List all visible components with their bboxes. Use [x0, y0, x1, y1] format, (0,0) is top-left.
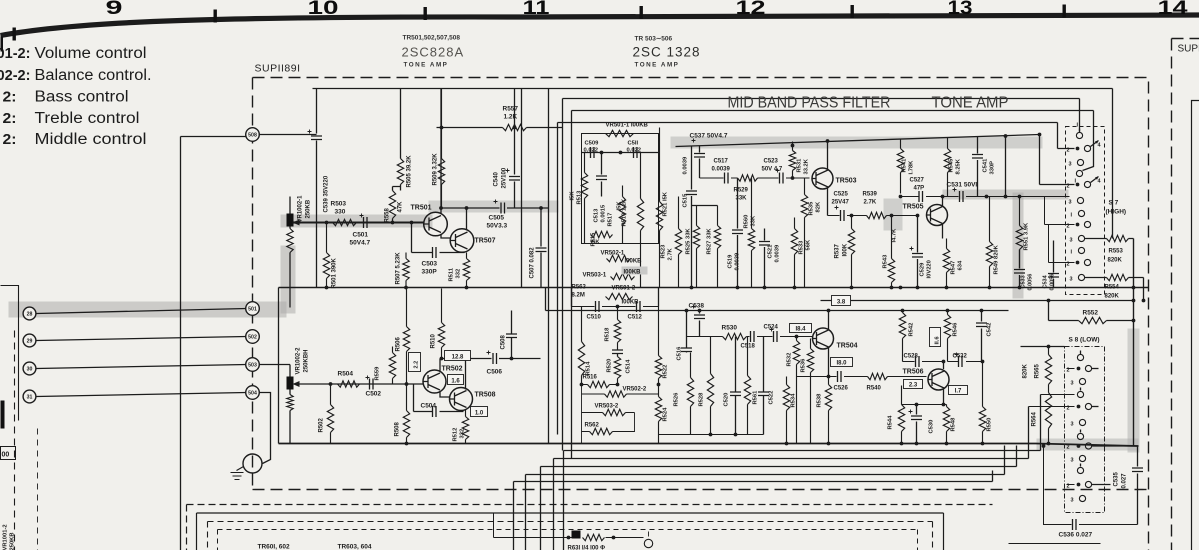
- wire TR505 collector: [942, 197, 944, 207]
- node 503: [246, 358, 260, 372]
- svg-text:C514: C514: [626, 359, 632, 374]
- svg-text:R504: R504: [338, 371, 354, 378]
- resistor R525: [693, 206, 699, 288]
- svg-text:SUPI: SUPI: [1178, 44, 1199, 55]
- junction C529 top: [916, 214, 920, 218]
- svg-text:0.022: 0.022: [584, 148, 599, 154]
- svg-text:R530: R530: [722, 325, 738, 332]
- svg-text:R501 390K: R501 390K: [332, 257, 338, 288]
- wire C506 row: [442, 358, 541, 360]
- ruler bar: [1, 15, 1199, 36]
- svg-text:3: 3: [1071, 498, 1074, 504]
- svg-text:3: 3: [1070, 238, 1073, 244]
- svg-text:R528: R528: [699, 392, 705, 407]
- svg-text:2:: 2:: [3, 131, 17, 148]
- svg-text:I0V220: I0V220: [927, 260, 933, 278]
- svg-text:VR501-2: VR501-2: [612, 286, 636, 292]
- pot VR501-1: [606, 130, 634, 136]
- transistor TR502: [423, 370, 446, 393]
- wire TR506 base row: [797, 376, 927, 378]
- svg-text:2:: 2:: [3, 110, 17, 127]
- junction R509 top: [440, 126, 444, 130]
- svg-text:330P: 330P: [422, 269, 438, 276]
- svg-text:C542: C542: [987, 323, 993, 337]
- connector mark R631: [572, 531, 581, 539]
- wire C505 row: [441, 207, 549, 209]
- wire node29 to node502: [37, 337, 247, 341]
- node 31: [23, 390, 36, 403]
- pot VR1002-2: [287, 377, 294, 390]
- boxed value 1.7: [949, 386, 968, 395]
- svg-text:TR501: TR501: [411, 205, 432, 212]
- svg-text:TR505: TR505: [903, 204, 924, 211]
- svg-text:TR502: TR502: [442, 366, 463, 373]
- capacitor C517: [725, 173, 729, 184]
- svg-text:R510: R510: [431, 333, 437, 348]
- transistor TR508: [450, 388, 473, 411]
- dashed box right section left edge: [1171, 39, 1173, 550]
- svg-text:C503: C503: [422, 261, 438, 268]
- wire S8 feed column: [1133, 239, 1135, 447]
- svg-text:332: 332: [460, 429, 466, 439]
- capacitor C534: [1053, 241, 1055, 288]
- resistor R557: [437, 124, 563, 130]
- svg-text:12.8: 12.8: [452, 355, 464, 361]
- svg-text:33K: 33K: [751, 215, 757, 226]
- junction C540 top: [513, 126, 517, 130]
- resistor R501: [323, 223, 329, 288]
- junction R508 top: [405, 382, 409, 386]
- rail C537: [676, 135, 1040, 147]
- svg-text:8.25K: 8.25K: [956, 158, 962, 174]
- resistor R530: [723, 333, 747, 339]
- resistor R562: [590, 428, 613, 434]
- svg-text:TR 503∼506: TR 503∼506: [635, 36, 673, 43]
- wiper arrow VR1002-2: [293, 381, 300, 387]
- svg-text:C510: C510: [587, 315, 602, 321]
- svg-text:I00KB: I00KB: [624, 270, 642, 276]
- svg-text:0.0039: 0.0039: [735, 252, 741, 271]
- resistor R505: [397, 159, 403, 185]
- svg-text:R559: R559: [375, 366, 381, 381]
- svg-text:C524: C524: [764, 325, 779, 331]
- svg-text:503: 503: [248, 363, 257, 369]
- svg-text:R534: R534: [791, 393, 797, 408]
- svg-text:C522: C522: [769, 391, 775, 405]
- node 29: [23, 334, 36, 347]
- svg-text:TR60I, 602: TR60I, 602: [258, 544, 291, 550]
- resistor R526: [687, 353, 693, 435]
- svg-text:R517: R517: [608, 213, 614, 227]
- transistor TR507: [450, 229, 474, 253]
- svg-text:VR1002-2: VR1002-2: [296, 347, 302, 375]
- dashed box bottom inner1: [208, 522, 933, 550]
- svg-text:Balance control.: Balance control.: [35, 67, 152, 84]
- svg-text:C538: C538: [689, 303, 705, 310]
- svg-text:R526: R526: [674, 392, 680, 407]
- S7 row1 throw: [1091, 141, 1099, 147]
- resistor R539: [867, 212, 887, 218]
- capacitor C533: [1019, 250, 1021, 288]
- wire TR504 collector: [828, 311, 830, 331]
- capacitor C508: [511, 311, 513, 359]
- svg-text:TR506: TR506: [903, 369, 924, 376]
- node 502: [246, 330, 260, 344]
- svg-text:3: 3: [1071, 422, 1074, 428]
- svg-text:C526: C526: [834, 386, 849, 392]
- capacitor C540: [514, 89, 516, 209]
- S7 wire row1: [1058, 148, 1075, 150]
- wire R527 top: [692, 205, 718, 207]
- svg-text:504: 504: [248, 391, 257, 397]
- resistor R559: [389, 347, 395, 385]
- highlight mark on R551 column: [1013, 193, 1024, 299]
- svg-text:R552: R552: [1083, 310, 1099, 317]
- svg-text:R503: R503: [331, 201, 347, 208]
- svg-text:C501: C501: [353, 232, 369, 239]
- svg-text:R512: R512: [453, 428, 459, 442]
- shield box line C: [572, 111, 1094, 459]
- wire TR502 emitter to TR508: [440, 392, 450, 397]
- junction lower bus dots: [827, 442, 831, 446]
- svg-text:00: 00: [2, 452, 10, 459]
- S8 contact 1d: [1077, 467, 1083, 473]
- wire TR505 base row: [828, 215, 917, 217]
- svg-text:Treble control: Treble control: [35, 110, 140, 127]
- node 501: [246, 302, 260, 316]
- wire R544 row: [902, 404, 947, 406]
- svg-text:R549 820K: R549 820K: [994, 244, 1000, 274]
- svg-text:0.0039: 0.0039: [712, 167, 731, 173]
- svg-text:I00K: I00K: [843, 243, 849, 256]
- S7 wire row2: [1040, 184, 1075, 186]
- svg-text:C504: C504: [421, 403, 437, 410]
- svg-text:C536 0.027: C536 0.027: [1059, 532, 1093, 539]
- ruler tick at x=213: [214, 10, 217, 23]
- svg-text:R514: R514: [586, 361, 592, 376]
- svg-text:R550: R550: [987, 418, 993, 432]
- svg-text:9: 9: [106, 0, 123, 19]
- resistor R515: [591, 231, 613, 237]
- highlight mark on S8 feed column: [1128, 329, 1140, 453]
- wire TR502 base bus: [300, 383, 424, 385]
- pot VR502-2: [605, 391, 627, 397]
- shield box line A: [313, 89, 1113, 444]
- svg-text:R63I I/4 I00 Φ: R63I I/4 I00 Φ: [568, 546, 606, 550]
- svg-text:C5II: C5II: [628, 141, 639, 147]
- boxed value 12.8: [445, 351, 471, 361]
- capacitor C542: [981, 311, 983, 362]
- ruler tick at x=12: [13, 28, 16, 41]
- junction R543 top: [890, 214, 894, 218]
- boxed value 1.6: [448, 375, 464, 385]
- svg-text:MID BAND PASS FILTER: MID BAND PASS FILTER: [728, 95, 891, 112]
- svg-text:R531: R531: [797, 158, 803, 173]
- svg-text:TONE AMP: TONE AMP: [635, 62, 680, 69]
- resistor R521: [656, 128, 662, 288]
- svg-text:29: 29: [27, 339, 33, 345]
- svg-text:R522: R522: [663, 365, 669, 379]
- svg-text:31: 31: [27, 395, 33, 401]
- boxed value 18.0: [831, 358, 853, 367]
- ruler tick at x=1062: [1063, 5, 1066, 18]
- svg-text:Middle control: Middle control: [35, 131, 147, 148]
- highlight mark on VR1002-1: [281, 246, 296, 314]
- resistor R512: [462, 410, 468, 444]
- svg-text:VR1002-1: VR1002-1: [298, 195, 304, 223]
- black page-edge mark top: [1, 37, 4, 52]
- svg-text:R508: R508: [395, 421, 401, 436]
- inner box left edge: [278, 288, 280, 444]
- svg-text:R507 5.23K: R507 5.23K: [396, 252, 402, 285]
- svg-text:3: 3: [1069, 200, 1072, 206]
- svg-text:30: 30: [27, 367, 33, 373]
- resistor R511: [463, 253, 469, 288]
- svg-text:C532: C532: [953, 354, 968, 360]
- svg-text:330: 330: [335, 209, 346, 216]
- resistor R541: [897, 139, 903, 194]
- svg-text:R551 3.9K: R551 3.9K: [1024, 222, 1030, 251]
- svg-text:R529: R529: [734, 188, 749, 194]
- svg-text:R560: R560: [744, 215, 750, 229]
- svg-text:II.6: II.6: [935, 336, 941, 345]
- svg-text:0.0056: 0.0056: [1050, 274, 1056, 291]
- svg-text:VR501-1 I00KB: VR501-1 I00KB: [606, 123, 649, 129]
- svg-text:8.2M: 8.2M: [572, 293, 585, 299]
- resistor R524: [655, 385, 661, 444]
- resistor R504: [338, 381, 360, 387]
- capacitor C537: [699, 146, 701, 179]
- svg-text:I8.4: I8.4: [795, 327, 806, 333]
- resistor R519: [637, 153, 643, 288]
- svg-text:3: 3: [1070, 277, 1073, 283]
- svg-text:2: 2: [1067, 445, 1070, 451]
- svg-text:R527 33K: R527 33K: [707, 228, 713, 255]
- capacitor C505: [501, 203, 505, 214]
- resistor R542: [899, 311, 905, 362]
- ruler tick at x=423: [424, 7, 427, 20]
- resistor R532: [793, 337, 799, 444]
- resistor R522: [655, 307, 661, 385]
- shield box line D: [558, 123, 1058, 435]
- junction C503: [410, 221, 414, 225]
- svg-text:2:: 2:: [3, 89, 17, 106]
- svg-text:R561: R561: [753, 390, 759, 405]
- svg-text:R543: R543: [883, 254, 889, 269]
- svg-text:VR503-1: VR503-1: [583, 273, 607, 279]
- svg-text:R519 1.2K: R519 1.2K: [622, 198, 628, 227]
- svg-text:R511: R511: [449, 267, 455, 281]
- capacitor C515: [691, 147, 693, 288]
- svg-text:R541: R541: [902, 158, 908, 173]
- capacitor C503: [433, 247, 437, 258]
- svg-text:2.7K: 2.7K: [668, 247, 674, 260]
- svg-text:C525: C525: [834, 192, 849, 198]
- highlight mark on C537 rail: [671, 137, 1043, 149]
- wire TR503 collector: [827, 141, 829, 171]
- wire TR506 collector row: [903, 361, 944, 363]
- dashed box SUP11891 right: [1148, 82, 1150, 550]
- svg-text:S 7: S 7: [1109, 200, 1119, 207]
- capacitor C539: [259, 89, 317, 288]
- svg-text:R524: R524: [663, 407, 669, 422]
- pot VR501-2: [606, 293, 633, 299]
- highlight mark on TR501 base wire: [281, 215, 433, 228]
- svg-text:C528: C528: [904, 354, 919, 360]
- resistor R558: [389, 191, 395, 219]
- wire into node508: [181, 136, 246, 138]
- svg-text:C507 0.082: C507 0.082: [530, 247, 536, 279]
- wire TR501 base bus: [300, 222, 425, 224]
- right section inner box: [1192, 101, 1199, 550]
- wire TR503 emitter: [827, 187, 829, 216]
- wire S8 interconnect: [1029, 395, 1075, 407]
- svg-text:2.7K: 2.7K: [864, 200, 877, 206]
- svg-text:C520: C520: [724, 393, 730, 407]
- resistor R548: [943, 405, 949, 444]
- junction C507 top: [539, 206, 543, 210]
- svg-text:VR502-1: VR502-1: [601, 251, 625, 257]
- resistor R507: [403, 253, 409, 288]
- terminal box 100: [1, 447, 16, 460]
- wire C531 row: [901, 196, 1070, 198]
- svg-text:R553: R553: [1109, 249, 1124, 255]
- svg-text:R506: R506: [396, 336, 402, 351]
- svg-text:C521: C521: [768, 244, 774, 259]
- wire R554 column: [1143, 278, 1145, 301]
- svg-text:250KB: 250KB: [306, 199, 312, 218]
- svg-text:R518: R518: [605, 327, 611, 342]
- svg-text:R538: R538: [817, 393, 823, 408]
- svg-text:C535: C535: [1114, 471, 1120, 486]
- svg-text:R564: R564: [1032, 411, 1038, 426]
- capacitor C526: [838, 371, 842, 382]
- svg-text:0.0015: 0.0015: [601, 204, 607, 223]
- capacitor C529: [917, 216, 919, 288]
- node 504: [246, 386, 260, 400]
- svg-text:13: 13: [948, 0, 973, 19]
- capacitor C516: [681, 348, 692, 352]
- capacitor C504: [433, 406, 437, 417]
- boxed value 18.4: [790, 324, 812, 333]
- svg-text:TR503: TR503: [836, 178, 857, 185]
- transistor TR505: [927, 205, 948, 226]
- junction R558: [391, 221, 395, 225]
- S8 contact 1b: [1077, 391, 1083, 397]
- svg-text:I00KB: I00KB: [625, 259, 643, 265]
- svg-text:R536: R536: [801, 358, 807, 373]
- junction R541 bottom: [899, 195, 903, 199]
- svg-text:2SC 1328: 2SC 1328: [633, 45, 701, 60]
- svg-text:C502: C502: [366, 391, 382, 398]
- dashed box SUP11891 top: [253, 77, 1149, 79]
- resistor R560: [748, 178, 754, 288]
- resistor R561: [744, 337, 750, 435]
- node 508: [246, 128, 260, 142]
- wire node28 to node501: [37, 309, 247, 314]
- boxed value 2.3: [904, 380, 923, 389]
- wire TR505 emitter: [942, 224, 944, 239]
- capacitor C536: [1044, 446, 1138, 525]
- svg-text:C540: C540: [494, 171, 500, 186]
- resistor R549: [986, 197, 992, 288]
- capacitor C524: [774, 331, 778, 342]
- resistor R564: [1045, 391, 1051, 444]
- resistor R506: [403, 289, 409, 385]
- junction C531 row: [985, 195, 989, 199]
- svg-text:634: 634: [958, 260, 964, 270]
- S8 contact 1c: [1077, 433, 1083, 439]
- svg-text:C508: C508: [501, 334, 507, 349]
- resistor R533: [791, 218, 797, 288]
- svg-text:02-2:: 02-2:: [0, 67, 31, 84]
- capacitor C507: [540, 208, 542, 288]
- svg-text:C513: C513: [594, 208, 600, 223]
- svg-text:250KB: 250KB: [10, 532, 16, 550]
- svg-text:R558: R558: [385, 207, 391, 222]
- dashed box bottom inner2: [218, 530, 918, 550]
- svg-text:VR502-2: VR502-2: [623, 387, 647, 393]
- svg-text:501: 501: [248, 307, 257, 313]
- boxed value 3.8: [832, 296, 851, 306]
- svg-text:(HIGH): (HIGH): [1106, 209, 1127, 216]
- resistor R517: [619, 186, 625, 244]
- svg-text:C516: C516: [677, 346, 683, 361]
- highlight mark on C505 wire: [429, 201, 559, 213]
- dashed edge line far left: [14, 331, 16, 550]
- capacitor C525: [841, 210, 845, 221]
- vertical wire x=521: [521, 89, 523, 288]
- resistor R547: [943, 239, 949, 288]
- svg-text:R565: R565: [1035, 363, 1041, 378]
- step wire 3: [541, 446, 1017, 550]
- svg-text:R545: R545: [949, 158, 955, 173]
- junction C509 row: [600, 151, 604, 155]
- wire TR506 emitter: [943, 390, 945, 405]
- highlight mark on C531 wire: [943, 190, 1069, 200]
- capacitor C501: [364, 217, 368, 228]
- svg-text:2SC828A: 2SC828A: [402, 45, 465, 60]
- svg-text:R523: R523: [661, 244, 667, 259]
- svg-text:R513: R513: [577, 190, 583, 205]
- svg-text:332: 332: [456, 269, 462, 279]
- step wire 4: [526, 446, 1005, 550]
- capacitor C520: [735, 337, 737, 435]
- resistor R510: [438, 289, 444, 359]
- resistor R509: [438, 89, 444, 208]
- solid box bottom: [197, 513, 944, 550]
- svg-text:C539 35V220: C539 35V220: [324, 175, 330, 212]
- resistor R553: [1085, 235, 1134, 241]
- svg-text:28: 28: [27, 312, 33, 318]
- S7 wire row4: [1049, 225, 1075, 263]
- svg-text:33.2K: 33.2K: [804, 158, 810, 174]
- svg-text:47K: 47K: [398, 201, 404, 213]
- svg-text:25V100: 25V100: [502, 167, 508, 188]
- pot VR503-2: [603, 409, 626, 415]
- resistor R529: [738, 175, 758, 181]
- wire TR501 collector: [440, 89, 442, 214]
- wire C509 row: [582, 152, 659, 154]
- capacitor C512: [637, 301, 641, 312]
- resistor R518: [614, 307, 620, 350]
- wire TR504 emitter: [828, 347, 830, 377]
- resistor R537: [848, 216, 854, 288]
- svg-text:R554: R554: [1105, 285, 1120, 291]
- svg-text:R502: R502: [319, 417, 325, 432]
- step wire 2: [554, 407, 1029, 550]
- svg-text:TONE AMP: TONE AMP: [932, 95, 1009, 112]
